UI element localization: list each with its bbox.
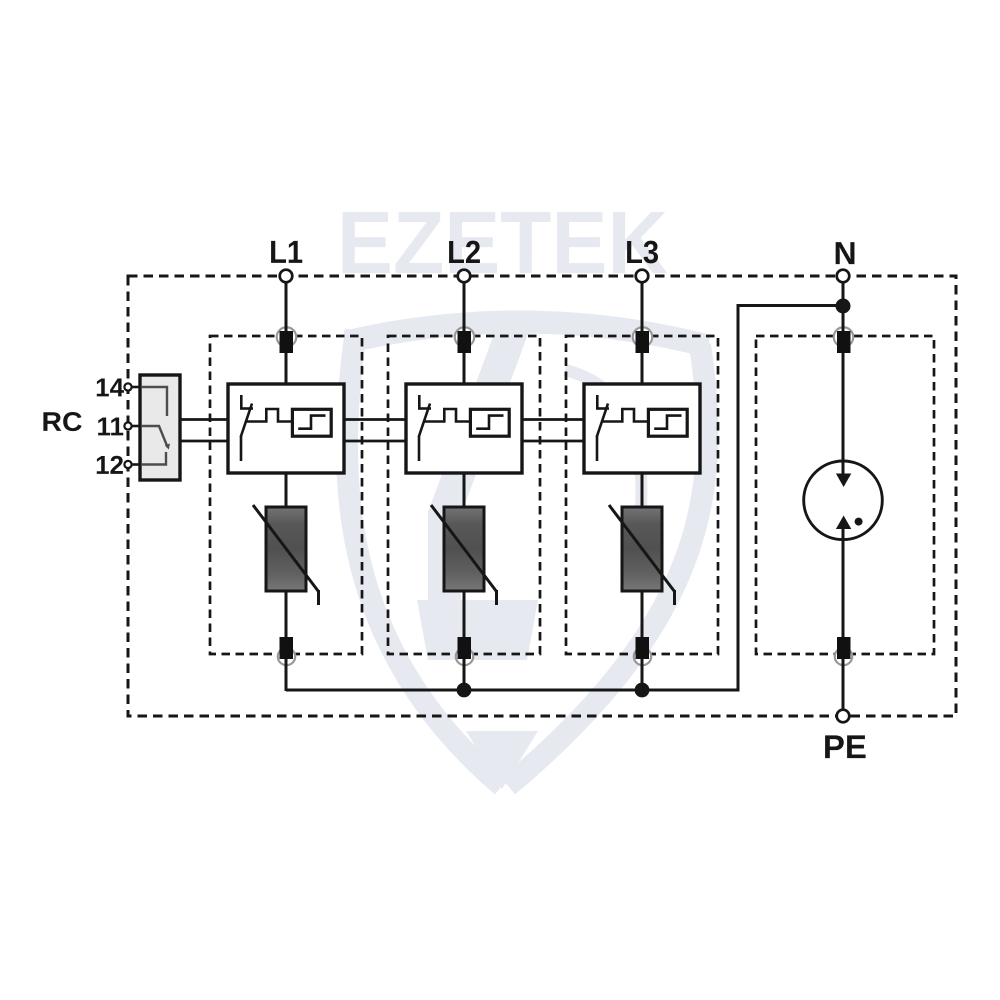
L2 phase branch bbox=[463, 283, 466, 692]
terminal circle 11 bbox=[124, 422, 131, 429]
thermal disconnector with indication U1 bbox=[228, 384, 344, 473]
remote signalling wires RC to U1 bbox=[180, 420, 584, 442]
wire varistor to bottom plug bbox=[463, 590, 466, 640]
plug-in contact top N bbox=[834, 325, 854, 353]
wire bottom bus bbox=[286, 306, 843, 691]
L3 phase branch bbox=[641, 283, 644, 692]
wire L2 terminal to plug bbox=[463, 283, 466, 330]
wire bottom plug to bus bbox=[641, 655, 644, 691]
wire bottom plug to bus bbox=[463, 655, 466, 691]
module 3 dashed box bbox=[566, 336, 718, 654]
terminal circle 14 bbox=[124, 383, 131, 390]
watermark bolt trapezoid bbox=[417, 600, 538, 660]
thermal disconnector with indication U2 bbox=[406, 384, 522, 473]
terminal circle L1 bbox=[280, 270, 293, 283]
wire 11 terminal bbox=[128, 425, 140, 428]
plug-in contact bottom N-PE bbox=[835, 637, 852, 668]
wire disconnector box to varistor bbox=[641, 473, 644, 508]
svg-text:L3: L3 bbox=[625, 234, 659, 270]
remote signalling wires U2 to U3 bbox=[522, 418, 584, 421]
RC contact internals bbox=[141, 387, 168, 465]
wire plug to disconnector box bbox=[285, 350, 288, 384]
wire L1 terminal to plug bbox=[285, 283, 288, 330]
wire bottom plug to PE terminal bbox=[842, 655, 845, 710]
gas discharge tube FV bbox=[804, 461, 883, 540]
remote signalling wires U1 to U2 bbox=[344, 418, 406, 421]
outer dashed enclosure bbox=[128, 276, 956, 716]
plug-in contact bottom L3 bbox=[634, 637, 651, 668]
wire GDT to bottom plug bbox=[842, 528, 845, 640]
watermark shield inner right line bbox=[565, 370, 641, 520]
wire L3 terminal to plug bbox=[641, 283, 644, 330]
wire plug to disconnector box bbox=[641, 350, 644, 384]
RC contact box body bbox=[140, 375, 180, 480]
wire junction to GDT bbox=[842, 350, 845, 478]
bottom PE bus wire bbox=[286, 306, 843, 691]
varistor RU1 bbox=[253, 505, 319, 605]
varistor RU3 bbox=[609, 505, 675, 605]
watermark group bbox=[337, 193, 708, 789]
L1 phase branch bbox=[285, 283, 288, 692]
node junction N-bus bbox=[836, 299, 851, 314]
wire varistor to bottom plug bbox=[641, 590, 644, 640]
svg-text:L1: L1 bbox=[269, 234, 303, 270]
module 2 dashed box bbox=[388, 336, 540, 654]
node junction L3-bus bbox=[635, 683, 650, 698]
wire plug to disconnector box bbox=[463, 350, 466, 384]
wire 12 terminal bbox=[128, 463, 140, 466]
plug-in contact bottom L1 bbox=[278, 637, 295, 668]
plug-in contact top L1 bbox=[277, 325, 297, 353]
watermark shield right side bbox=[508, 345, 707, 786]
terminal circle L3 bbox=[636, 270, 649, 283]
wire N terminal to junction bbox=[842, 283, 845, 331]
terminal circle L2 bbox=[458, 270, 471, 283]
watermark shield top arc bbox=[346, 322, 708, 346]
plug-in contact top L2 bbox=[455, 325, 475, 353]
terminal circle N bbox=[837, 270, 850, 283]
watermark shield left side bbox=[347, 330, 502, 786]
watermark bolt vertical bar bbox=[428, 510, 461, 602]
varistor RU2 bbox=[431, 505, 497, 605]
svg-text:RC: RC bbox=[42, 407, 83, 437]
watermark bolt triangle bbox=[466, 731, 538, 789]
terminal labels bbox=[41, 234, 867, 765]
svg-text:L2: L2 bbox=[447, 234, 481, 270]
plug-in contact bottom L2 bbox=[456, 637, 473, 668]
wire 14 terminal bbox=[128, 386, 140, 389]
svg-text:11: 11 bbox=[97, 411, 125, 441]
node junction L2-bus bbox=[457, 683, 472, 698]
plug-in contact top L3 bbox=[633, 325, 653, 353]
watermark bolt diagonal band bbox=[428, 318, 534, 512]
svg-text:N: N bbox=[834, 235, 857, 271]
terminal circle PE bbox=[837, 710, 850, 723]
RC contact arrow tip bbox=[165, 444, 170, 450]
wire disconnector box to varistor bbox=[463, 473, 466, 508]
svg-text:12: 12 bbox=[95, 450, 124, 480]
wire bottom plug to bus bbox=[285, 655, 288, 691]
svg-text:PE: PE bbox=[823, 728, 867, 765]
svg-text:14: 14 bbox=[95, 372, 124, 402]
thermal disconnector with indication U3 bbox=[584, 384, 700, 473]
terminal circle 12 bbox=[124, 461, 131, 468]
wire disconnector box to varistor bbox=[285, 473, 288, 508]
wire varistor to bottom plug bbox=[285, 590, 288, 640]
N-PE dashed box bbox=[756, 336, 934, 654]
module 1 dashed box bbox=[210, 336, 362, 654]
N branch wires bbox=[842, 283, 845, 711]
